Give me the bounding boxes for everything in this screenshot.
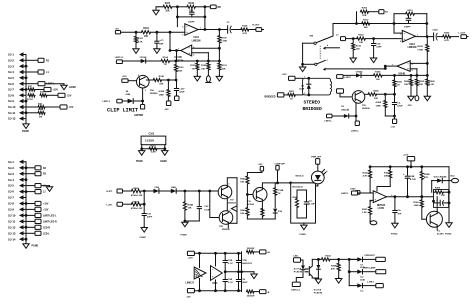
terminal -B <box>260 290 267 294</box>
resistor R101 4.7K <box>135 32 137 36</box>
capacitor C18 0.1UF <box>224 253 226 259</box>
svg-text:SJ-13: SJ-13 <box>8 231 16 235</box>
wire <box>185 220 199 222</box>
wire collector T05 <box>365 93 368 95</box>
svg-text:STEREO: STEREO <box>304 100 321 106</box>
ground at L1 <box>49 186 51 187</box>
wire switch common <box>303 42 314 44</box>
wire T10 collector <box>262 183 275 190</box>
component box R365/C43 <box>434 190 449 208</box>
wire <box>123 203 132 205</box>
resistor R358 47K <box>421 167 423 171</box>
wire <box>141 203 144 205</box>
svg-text:-15V: -15V <box>186 297 191 299</box>
svg-text:+: + <box>212 274 214 278</box>
svg-text:R210: R210 <box>407 10 413 12</box>
wire T08 base <box>210 191 221 218</box>
svg-text:2: 2 <box>400 33 401 35</box>
svg-text:2N3906: 2N3906 <box>150 93 158 95</box>
ground R121 <box>196 75 198 76</box>
svg-text:PC817B: PC817B <box>314 293 323 295</box>
svg-text:R221: R221 <box>397 82 403 84</box>
resistor R342 10K <box>246 195 248 208</box>
svg-text:R102: R102 <box>143 28 149 30</box>
svg-text:1.2K: 1.2K <box>362 212 367 214</box>
svg-text:+: + <box>186 30 188 34</box>
ground C102 <box>156 47 158 50</box>
svg-text:U204: U204 <box>409 43 415 46</box>
resistor R356 20K <box>389 167 391 170</box>
wire <box>361 74 374 76</box>
op-amp U204A <box>402 30 415 42</box>
svg-text:+: + <box>375 197 377 201</box>
svg-text:SJ-1: SJ-1 <box>8 53 14 57</box>
wire <box>159 190 171 192</box>
capacitor C43 <box>434 202 441 204</box>
svg-text:SJ-5: SJ-5 <box>8 76 14 80</box>
svg-text:10K: 10K <box>240 213 244 215</box>
wire T08 emitter <box>227 222 229 228</box>
wire U104B output <box>170 50 181 52</box>
wire feedback reg <box>377 186 390 188</box>
wire T10 emitter <box>261 200 263 213</box>
resistor R345 in box <box>295 199 298 208</box>
wire <box>358 192 374 194</box>
svg-text:K117-B: K117-B <box>294 269 302 271</box>
svg-text:R229: R229 <box>133 201 139 203</box>
svg-text:NE5534: NE5534 <box>377 204 386 207</box>
svg-text:220/2W: 220/2W <box>247 248 255 250</box>
svg-text:PWR-OFF: PWR-OFF <box>311 156 321 158</box>
svg-text:R122: R122 <box>201 65 207 67</box>
svg-text:R240: R240 <box>373 90 379 93</box>
diode CR104 <box>141 59 146 63</box>
capacitor C204 22PF <box>373 39 375 44</box>
transistor T08 <box>219 211 233 225</box>
wire T07 emitter to T08 <box>226 197 228 211</box>
svg-text:C2-: C2- <box>397 102 401 104</box>
wire emitter <box>142 88 144 101</box>
svg-text:L-MKT: L-MKT <box>367 281 374 283</box>
svg-text:220/2W: 220/2W <box>247 295 255 297</box>
svg-text:1K: 1K <box>278 193 281 195</box>
svg-text:2N3904: 2N3904 <box>228 202 236 205</box>
svg-text:R209: R209 <box>418 46 424 48</box>
resistor R17 <box>28 88 35 91</box>
svg-text:2: 2 <box>138 75 139 77</box>
wire U204B output <box>385 65 397 67</box>
svg-text:PGND: PGND <box>136 161 143 163</box>
svg-text:4.7UF: 4.7UF <box>410 178 417 181</box>
wire to inverting input <box>393 24 395 34</box>
svg-text:+: + <box>189 51 191 55</box>
svg-text:7.96K: 7.96K <box>221 41 227 43</box>
resistor R350 4.7K <box>369 167 371 170</box>
ground top-left of U104A <box>155 7 157 11</box>
svg-text:SJ-9: SJ-9 <box>8 99 14 103</box>
svg-text:-15V: -15V <box>407 105 412 107</box>
resistor R103 2M <box>26 112 38 114</box>
svg-text:U104: U104 <box>193 36 199 39</box>
svg-text:LED-: LED- <box>294 256 299 258</box>
wire <box>368 11 378 13</box>
capacitor C28 0.1UF <box>224 272 226 279</box>
svg-text:LED-L: LED-L <box>43 233 50 235</box>
svg-text:PGND: PGND <box>140 237 147 239</box>
svg-text:1K: 1K <box>192 68 195 70</box>
svg-text:R204: R204 <box>375 70 381 73</box>
svg-text:R212: R212 <box>363 20 369 22</box>
wire to U104B output node <box>169 32 171 50</box>
svg-text:22UF: 22UF <box>397 106 403 108</box>
terminal +15V T04 <box>122 79 128 83</box>
svg-text:4.99K: 4.99K <box>159 90 165 93</box>
wire U104B noninverting input <box>192 52 209 54</box>
resistor R20 <box>26 106 38 108</box>
terminal +15V T05 <box>337 89 344 93</box>
capacitor C302 0.33 <box>198 191 200 206</box>
svg-text:SC384: SC384 <box>247 203 254 206</box>
wire output branch to limit row <box>176 51 178 62</box>
svg-text:+15V: +15V <box>122 76 128 78</box>
svg-text:10K: 10K <box>359 42 363 44</box>
wire collector <box>146 79 153 81</box>
wire T10 base <box>247 194 253 196</box>
wire ps top bus <box>194 252 241 254</box>
wire ch2 limit row <box>340 74 356 76</box>
terminal L-OUT <box>461 35 467 39</box>
resistor R103B <box>175 61 177 64</box>
wire diode column <box>348 259 350 285</box>
svg-text:R-MT-: R-MT- <box>107 191 113 193</box>
svg-text:−: − <box>186 25 188 29</box>
svg-text:R107: R107 <box>165 3 171 5</box>
svg-text:R110: R110 <box>150 145 156 147</box>
resistor R210 feedback <box>394 13 406 15</box>
resistor R123A <box>352 39 354 43</box>
svg-text:SJ-4: SJ-4 <box>8 178 14 182</box>
wire <box>249 29 256 31</box>
svg-text:SJ-12: SJ-12 <box>8 225 16 229</box>
wire U301 output <box>387 196 450 198</box>
open arrow node <box>232 206 238 212</box>
svg-text:7: 7 <box>392 64 393 66</box>
ground R238 <box>338 278 340 279</box>
svg-text:PWR-BUT: PWR-BUT <box>365 255 376 257</box>
svg-text:-15V: -15V <box>67 95 72 97</box>
op-amp U104A <box>185 24 199 35</box>
svg-text:R342: R342 <box>240 209 246 212</box>
terminal L1 stub J2 <box>26 185 35 187</box>
resistor R229 470K <box>131 202 141 206</box>
resistor R204 10K <box>374 74 383 77</box>
resistor R140 22K <box>153 78 161 81</box>
node LIMIT-L stub <box>26 83 38 85</box>
op-amp U1 power <box>194 267 206 279</box>
svg-text:R34B: R34B <box>188 203 194 206</box>
svg-text:C102: C102 <box>149 133 155 136</box>
svg-text:100PF: 100PF <box>188 22 195 24</box>
svg-text:1: 1 <box>229 184 230 186</box>
switch SW2 <box>315 63 317 65</box>
op-amp U2 power <box>211 266 223 281</box>
component box BC6140 <box>291 183 316 223</box>
terminal RB <box>210 5 216 9</box>
svg-text:+15V: +15V <box>43 204 49 206</box>
svg-text:L-MT-: L-MT- <box>107 204 113 206</box>
resistor R108 <box>187 5 195 8</box>
resistor R402 220 <box>247 290 254 293</box>
transistor T30 <box>426 211 442 227</box>
wire <box>123 190 132 192</box>
wire <box>382 74 427 76</box>
svg-text:2: 2 <box>370 192 371 194</box>
wire rail dots <box>393 22 396 25</box>
svg-text:0.1UF: 0.1UF <box>309 204 316 206</box>
svg-text:1N: 1N <box>301 85 304 87</box>
svg-text:CR4148: CR4148 <box>341 108 350 111</box>
svg-text:C16B: C16B <box>278 190 284 192</box>
diode D33 <box>349 285 357 287</box>
capacitor C3 <box>219 29 227 31</box>
capacitor C205 <box>433 33 435 41</box>
svg-text:0.1U: 0.1U <box>228 282 233 284</box>
svg-text:LIMIT-L: LIMIT-L <box>325 120 333 122</box>
resistor R121 1K <box>196 61 198 63</box>
svg-text:100PF: 100PF <box>404 26 411 28</box>
svg-text:R360: R360 <box>414 202 420 204</box>
wire main input <box>121 31 142 33</box>
svg-text:100UF: 100UF <box>241 282 248 284</box>
svg-text:LIMIT-LAMP: LIMIT-LAMP <box>363 267 376 270</box>
resistor R344 <box>261 208 264 216</box>
terminal +15V bridge <box>289 76 296 80</box>
wire <box>231 29 241 31</box>
svg-text:D20 CR4148: D20 CR4148 <box>434 176 447 179</box>
svg-text:SJ-1: SJ-1 <box>8 160 14 164</box>
wire <box>195 6 210 8</box>
ground right rail <box>448 222 450 223</box>
wire <box>295 94 302 96</box>
wire bus J2 <box>25 162 27 242</box>
svg-text:MX10-D: MX10-D <box>296 176 304 178</box>
terminal LIMITER ch2 <box>355 121 359 126</box>
svg-text:LM833N: LM833N <box>192 40 201 42</box>
svg-text:2: 2 <box>304 93 305 95</box>
optocoupler K117 transistor side <box>305 268 308 270</box>
wire <box>363 271 376 273</box>
relay coil K201 box <box>303 78 332 95</box>
svg-text:2: 2 <box>327 60 328 62</box>
terminal COMP-WP <box>276 165 279 170</box>
capacitor C206 22UF <box>394 94 396 101</box>
terminal -15V C105 <box>175 96 180 101</box>
resistor R226 4.7K <box>443 35 451 38</box>
terminal LIMIT-LED-L stub J2 <box>26 214 35 216</box>
wire <box>346 38 359 40</box>
svg-text:PGND: PGND <box>181 235 188 237</box>
wire <box>162 79 177 81</box>
resistor R223 10K <box>416 75 418 79</box>
wire <box>363 258 376 260</box>
wire opamp power stubs <box>199 253 201 267</box>
wire T30 base <box>422 218 426 220</box>
wire <box>176 190 218 192</box>
svg-text:5: 5 <box>193 55 194 57</box>
wire <box>247 171 262 176</box>
ground PGND J1 <box>25 122 27 124</box>
wire right bus <box>236 178 238 224</box>
terminal -15V C206 <box>393 119 397 124</box>
ground ps <box>253 272 255 274</box>
svg-text:R224: R224 <box>429 80 435 83</box>
svg-text:SJ-7: SJ-7 <box>8 88 14 92</box>
terminal Batt <box>452 178 459 182</box>
svg-text:4.7K: 4.7K <box>363 175 368 178</box>
svg-text:AGND: AGND <box>69 86 76 89</box>
resistor R221 1K <box>394 75 396 80</box>
svg-text:LIMIT-L2: LIMIT-L2 <box>291 289 301 291</box>
svg-text:CLIP LIMIT: CLIP LIMIT <box>107 108 138 114</box>
wire limit row <box>116 60 122 64</box>
svg-text:L-MT2: L-MT2 <box>344 77 351 79</box>
wire <box>146 60 161 62</box>
svg-text:SJ-8: SJ-8 <box>8 202 14 206</box>
svg-text:SJ-9: SJ-9 <box>8 208 14 212</box>
svg-text:47K: 47K <box>424 176 428 179</box>
wire U204 output <box>415 36 433 38</box>
terminal L1 input <box>341 37 346 41</box>
wire <box>151 31 185 33</box>
resistor R202 <box>357 37 366 40</box>
capacitor C105 22UF <box>176 80 178 88</box>
svg-text:SJ-10: SJ-10 <box>8 214 16 218</box>
svg-text:47K: 47K <box>331 268 335 271</box>
svg-text:SJ-14: SJ-14 <box>8 237 16 241</box>
ground R101 <box>135 47 137 50</box>
svg-text:SJ-12: SJ-12 <box>8 117 16 121</box>
resistor R141 4.99K <box>167 80 169 90</box>
svg-text:2N3906: 2N3906 <box>362 108 370 110</box>
svg-text:−: − <box>404 32 406 36</box>
svg-text:20K: 20K <box>362 15 366 17</box>
svg-text:PGND: PGND <box>22 130 29 133</box>
resistor R241 4.99K <box>384 94 386 100</box>
wire branch up <box>356 12 358 24</box>
svg-text:SJ-3: SJ-3 <box>8 172 14 176</box>
svg-text:-15V: -15V <box>391 127 396 129</box>
svg-text:22PF: 22PF <box>147 217 153 219</box>
svg-text:+: + <box>404 37 406 41</box>
svg-text:27K: 27K <box>441 195 445 197</box>
svg-text:K117-B: K117-B <box>314 289 322 291</box>
svg-text:PGND: PGND <box>391 234 398 236</box>
svg-text:4.7K: 4.7K <box>138 40 143 43</box>
svg-text:PGND: PGND <box>445 234 452 236</box>
svg-text:LM833N: LM833N <box>408 47 417 49</box>
svg-text:R121: R121 <box>190 65 196 67</box>
terminal R3 stub J2 <box>26 173 35 175</box>
svg-text:1K: 1K <box>397 85 400 87</box>
wire <box>141 145 143 149</box>
svg-text:10K: 10K <box>419 84 423 86</box>
svg-text:SJ-8: SJ-8 <box>8 93 14 97</box>
capacitor C303 in box <box>304 201 308 203</box>
svg-text:LM6172: LM6172 <box>186 282 195 284</box>
svg-text:SJ-6: SJ-6 <box>8 82 14 86</box>
wire <box>365 38 402 40</box>
terminal IN1 <box>115 31 120 34</box>
wire <box>172 6 187 8</box>
svg-text:R35B: R35B <box>424 174 430 176</box>
resistor R128 4.7K <box>241 28 249 31</box>
wire T30 collector <box>436 197 438 214</box>
resistor R343 1K <box>274 183 276 188</box>
ground AGND <box>63 84 65 86</box>
resistor R240 22K <box>368 93 376 96</box>
svg-text:4.7K: 4.7K <box>444 39 449 42</box>
svg-text:C205: C205 <box>432 30 438 32</box>
svg-text:R103: R103 <box>178 67 184 69</box>
svg-text:7: 7 <box>178 49 179 51</box>
terminal LIMIT-LED-R stub J2 <box>26 220 35 222</box>
svg-text:SJ-10: SJ-10 <box>8 105 16 109</box>
wire base <box>128 80 139 82</box>
wire <box>377 93 395 95</box>
resistor R107 <box>159 6 164 8</box>
svg-text:1K: 1K <box>290 98 293 100</box>
ground PGND J2 <box>25 242 27 244</box>
svg-text:R104: R104 <box>163 56 169 59</box>
wire <box>442 180 451 182</box>
svg-text:+15V: +15V <box>188 257 194 259</box>
svg-text:6: 6 <box>412 64 413 66</box>
resistor R123 10K <box>218 61 220 63</box>
svg-text:1N: 1N <box>341 106 344 108</box>
svg-text:R350: R350 <box>363 172 369 174</box>
wire output vertical U204 <box>426 24 428 37</box>
svg-text:UNIT: UNIT <box>351 188 357 190</box>
svg-text:100UF/16V: 100UF/16V <box>241 263 253 265</box>
svg-text:10K: 10K <box>376 79 380 81</box>
svg-text:LIMIT-L2: LIMIT-L2 <box>115 57 124 59</box>
svg-text:-15V: -15V <box>164 109 169 111</box>
wire <box>170 60 220 62</box>
resistor R104 1K <box>161 59 170 62</box>
ground C204 <box>373 57 375 60</box>
resistor R401 220 <box>247 250 254 253</box>
svg-text:BRIDGED: BRIDGED <box>303 106 323 112</box>
wire base T05 <box>340 93 355 97</box>
diode CR301 <box>154 189 159 194</box>
svg-text:4C380: 4C380 <box>437 233 444 236</box>
terminal LED-R stub J2 <box>26 226 35 228</box>
capacitor C102 22PF <box>156 32 158 41</box>
svg-text:C4B: C4B <box>410 175 415 178</box>
wire ps bottom bus <box>194 290 241 292</box>
resistor R360 100K <box>421 197 423 200</box>
ground C41 <box>394 222 396 223</box>
wire top rail reg <box>370 166 449 168</box>
svg-text:R123: R123 <box>356 45 362 47</box>
wire SW2 to limiter <box>325 66 385 69</box>
svg-text:+15V: +15V <box>53 90 59 92</box>
diode CR302 <box>171 189 176 194</box>
wire feedback cap branch <box>177 16 205 18</box>
diode CR205 <box>344 114 349 118</box>
svg-text:L-OUT: L-OUT <box>459 32 466 34</box>
ground R330 <box>184 221 186 222</box>
